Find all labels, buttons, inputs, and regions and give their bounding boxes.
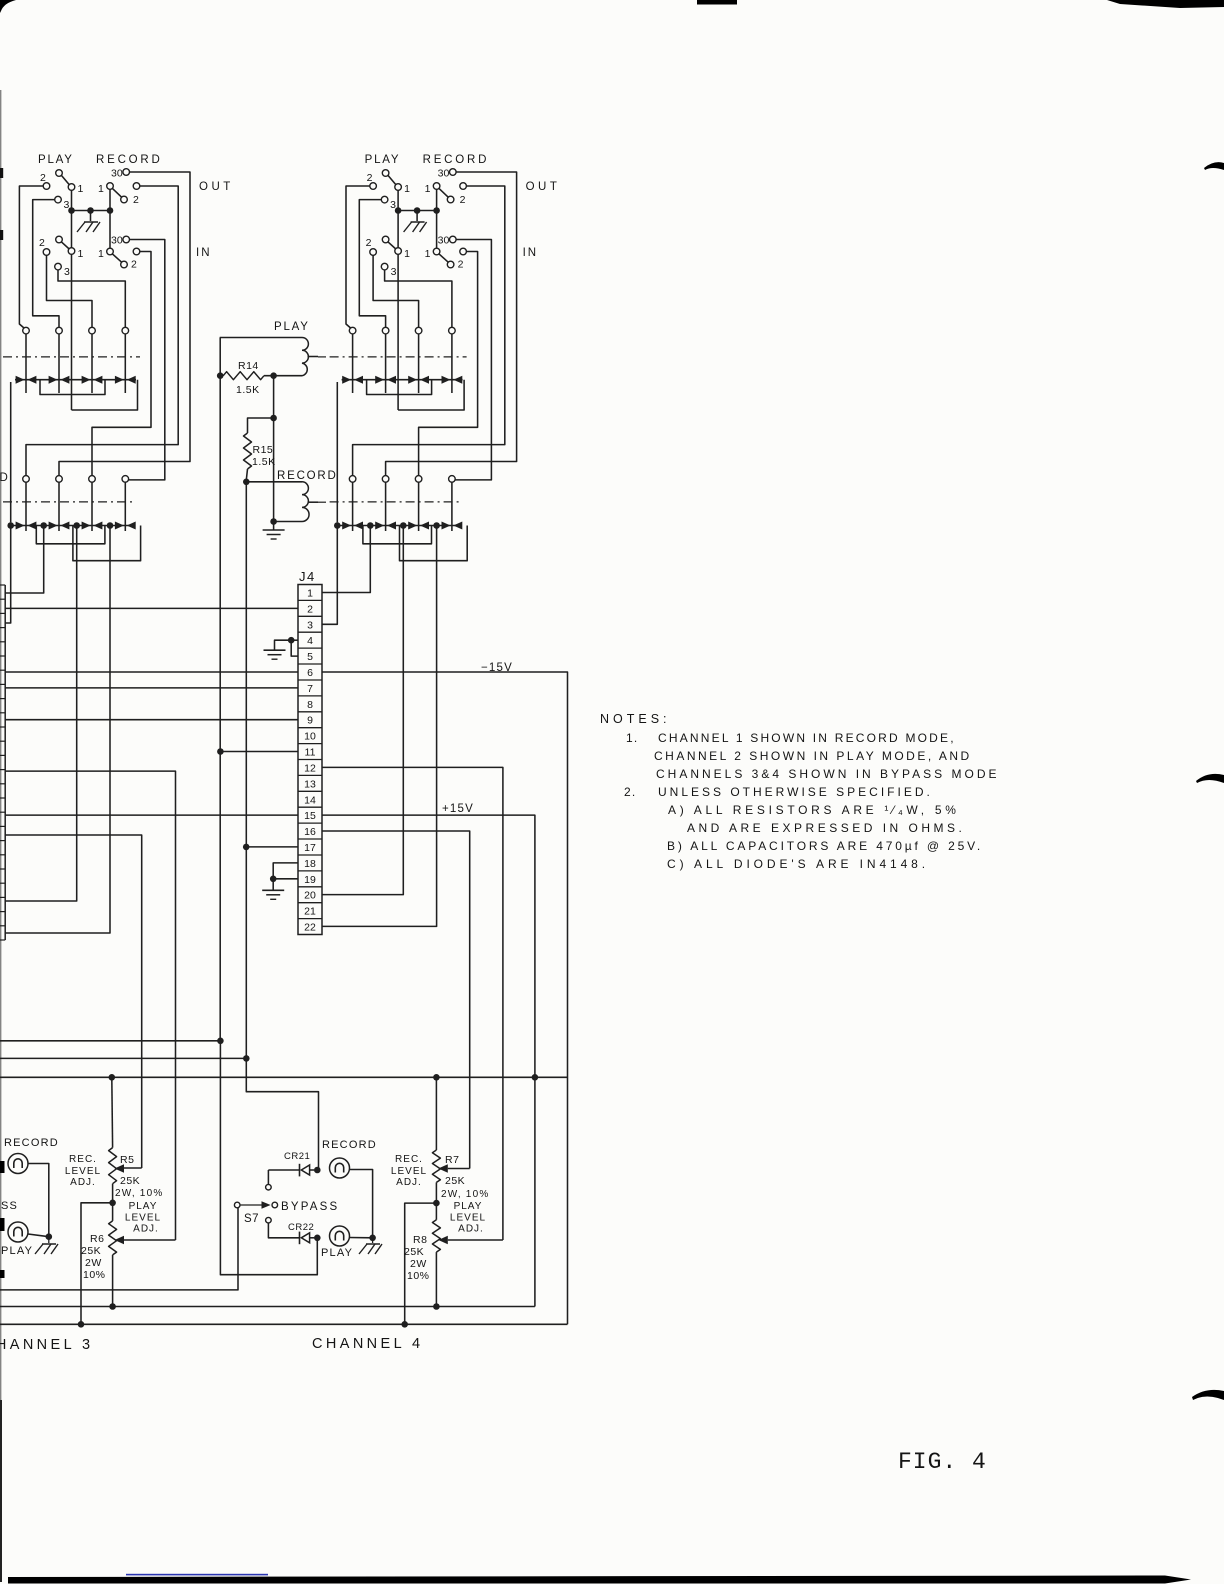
svg-text:R5: R5 — [120, 1154, 134, 1166]
svg-text:1.5K: 1.5K — [236, 384, 260, 396]
junction R14 right — [270, 372, 277, 379]
svg-text:C) ALL DIODE'S ARE IN4148.: C) ALL DIODE'S ARE IN4148. — [667, 857, 929, 871]
lamp DS-record ch3 — [8, 1154, 28, 1174]
wire R7 to R8 — [435, 1182, 437, 1219]
wire S7 to CR22 anode — [268, 1223, 299, 1238]
wire pot bottom rail — [0, 1306, 535, 1308]
wire ground stem — [273, 522, 275, 530]
scan artifact: right-edge curl 2 — [1196, 774, 1224, 783]
svg-text:10%: 10% — [83, 1269, 106, 1281]
svg-text:2W: 2W — [410, 1258, 427, 1270]
svg-text:16: 16 — [304, 826, 316, 838]
scan artifact: right-edge curl 1 — [1204, 162, 1224, 170]
svg-text:1.: 1. — [626, 731, 638, 745]
svg-text:LEVEL: LEVEL — [65, 1166, 101, 1177]
wire S7 arm — [240, 1204, 262, 1206]
svg-text:REC.: REC. — [69, 1154, 97, 1165]
svg-text:RECORD: RECORD — [322, 1139, 377, 1151]
switch bank block (channel 4) — [330, 154, 561, 561]
junction R7/R8 — [433, 1200, 440, 1207]
potentiometer R7 — [432, 1150, 440, 1182]
wire bus2 block1 to edge connector — [5, 529, 44, 594]
svg-text:A) ALL RESISTORS ARE ¹⁄₄W, 5%: A) ALL RESISTORS ARE ¹⁄₄W, 5% — [668, 803, 960, 817]
wire edge connector to J4 pin 7 — [5, 687, 298, 689]
lamp DS-record ch4 — [330, 1158, 350, 1178]
wire R5/R6 junction to bottom rail — [81, 1203, 113, 1325]
svg-text:1.5K: 1.5K — [252, 456, 276, 468]
wire play head bottom — [264, 375, 302, 377]
svg-text:3: 3 — [307, 619, 313, 631]
svg-text:CHANNEL 2 SHOWN IN PLAY MODE,: CHANNEL 2 SHOWN IN PLAY MODE, AND — [654, 749, 972, 763]
svg-text:7: 7 — [307, 683, 313, 695]
svg-text:CHANNEL 1 SHOWN IN RECORD MOD: CHANNEL 1 SHOWN IN RECORD MODE, — [658, 731, 956, 745]
wire R7 wiper out — [448, 1168, 470, 1170]
svg-text:ADJ.: ADJ. — [133, 1224, 159, 1235]
junction R14 left — [217, 372, 224, 379]
wire record head bottom — [274, 521, 302, 523]
scan artifact: top-left black corner — [0, 0, 16, 13]
svg-text:R8: R8 — [413, 1234, 427, 1246]
scan artifact: top edge dash — [697, 0, 737, 5]
svg-text:2: 2 — [307, 603, 313, 615]
wire bottom rail (-15V return) — [0, 1323, 568, 1325]
svg-text:13: 13 — [304, 778, 316, 790]
wiper arrow R6 — [115, 1236, 125, 1245]
wire to J4 pin 17 — [246, 846, 298, 848]
svg-text:CHANNEL 4: CHANNEL 4 — [312, 1336, 423, 1352]
lamp DS-play ch4 — [330, 1226, 350, 1246]
wire -15V rail — [322, 672, 568, 1324]
scan artifact: left-edge clipped component blobs — [0, 1161, 5, 1173]
wire play head top — [220, 337, 302, 339]
wire pin 19 — [273, 878, 298, 880]
inductor PLAY head winding — [302, 338, 308, 376]
potentiometer R6 — [109, 1221, 117, 1255]
svg-text:ADJ.: ADJ. — [70, 1177, 96, 1188]
centre line to switch bank 2 — [318, 501, 329, 503]
wire ground stem pins 4-5 — [275, 640, 292, 650]
ground (ch4 lamps) — [366, 1243, 380, 1245]
wire R6 bottom to rail — [112, 1255, 114, 1307]
svg-text:18: 18 — [304, 858, 316, 870]
svg-text:2W: 2W — [85, 1257, 102, 1269]
ground (record head) — [263, 529, 285, 531]
wire rail to R5 top — [111, 1077, 114, 1147]
switch bank block (channel 3, clipped at left) — [3, 154, 234, 561]
wire edge connector to R5 wiper — [5, 835, 142, 1168]
wire CR21 to S7 throw — [267, 1170, 269, 1184]
wire rail to record bus — [0, 1057, 246, 1059]
junction record bus tap — [243, 1055, 250, 1062]
wire +15V rail — [322, 815, 535, 1077]
svg-text:25K: 25K — [120, 1175, 140, 1187]
svg-text:2.: 2. — [624, 785, 636, 799]
svg-text:LEVEL: LEVEL — [391, 1166, 427, 1177]
svg-text:FIG. 4: FIG. 4 — [898, 1449, 987, 1475]
wire to CR21 anode — [268, 1169, 299, 1171]
svg-text:B) ALL CAPACITORS ARE 470µf @: B) ALL CAPACITORS ARE 470µf @ 25V. — [667, 839, 983, 853]
inductor RECORD head winding — [302, 482, 309, 522]
centre line to switch bank — [318, 356, 329, 358]
wire play lamp ch3 — [28, 1234, 49, 1237]
svg-text:21: 21 — [304, 906, 316, 918]
svg-text:PLAY: PLAY — [274, 321, 310, 333]
svg-text:CR21: CR21 — [284, 1151, 310, 1162]
wire long vertical R15 bus — [245, 482, 247, 1059]
wire bus4 block1 to edge connector — [5, 529, 110, 934]
svg-text:10: 10 — [304, 731, 316, 743]
wire long vertical play-top bus — [219, 338, 221, 1041]
svg-text:REC.: REC. — [395, 1154, 423, 1165]
wire play head centre tap — [308, 356, 319, 358]
svg-text:J4: J4 — [299, 569, 316, 584]
diode CR21 — [299, 1164, 301, 1177]
junction J4 pin4 ground tie — [288, 637, 295, 644]
svg-text:PLAY: PLAY — [1, 1245, 33, 1257]
wire R15 bottom — [246, 469, 247, 480]
junction pin 17 tap — [243, 844, 250, 851]
svg-text:15: 15 — [304, 810, 316, 822]
wire pin 18 tie — [273, 863, 298, 879]
resistor R15 — [244, 433, 252, 469]
svg-text:8: 8 — [307, 699, 313, 711]
ground (J4 pins 4-5) — [264, 649, 286, 651]
S7 throw contact (play) — [266, 1217, 272, 1223]
junction J4 pin19 ground tie — [270, 876, 277, 883]
svg-text:UNLESS OTHERWISE SPECIFIED.: UNLESS OTHERWISE SPECIFIED. — [658, 785, 933, 799]
svg-text:1: 1 — [307, 588, 313, 600]
wire bus1 block1 to edge connector — [5, 529, 11, 624]
junction R5 top tap — [109, 1074, 116, 1081]
svg-text:BYPASS: BYPASS — [281, 1201, 339, 1213]
wire bus1 block2 to J4 pin 3 — [322, 529, 337, 625]
junction bypass bus ch3 — [217, 1038, 224, 1045]
junction pin 11 tap — [217, 748, 224, 755]
svg-text:LEVEL: LEVEL — [450, 1213, 486, 1224]
svg-text:20: 20 — [304, 890, 316, 902]
svg-text:RECORD: RECORD — [4, 1137, 59, 1149]
svg-text:6: 6 — [307, 667, 313, 679]
wire record head centre tap — [308, 501, 319, 503]
scan artifact: left-edge clipped wire stubs — [0, 168, 3, 178]
potentiometer R5 — [109, 1148, 117, 1184]
svg-text:LEVEL: LEVEL — [125, 1213, 161, 1224]
svg-text:RECORD: RECORD — [277, 470, 338, 482]
wire R8 wiper out — [448, 1239, 503, 1241]
junction R5/R6 tap on -15V bottom rail — [78, 1321, 85, 1328]
svg-text:S7: S7 — [244, 1213, 259, 1225]
S7 common contact — [234, 1202, 240, 1208]
wire R14 junction down to record head — [273, 376, 275, 522]
junction R7 top tap — [433, 1074, 440, 1081]
wire R5 to R6 — [112, 1184, 114, 1221]
wire R8 bottom to rail — [435, 1252, 437, 1306]
wire R6 wiper out — [124, 1239, 176, 1241]
scan artifact: left edge line — [0, 90, 1, 1420]
wire edge connector to J4 pin 6 — [5, 671, 298, 673]
svg-text:PLAY: PLAY — [129, 1201, 158, 1212]
S7 arm arrow — [262, 1201, 271, 1209]
wire record lamp to play lamp ch3 — [28, 1164, 49, 1237]
scan artifact: bottom black bar — [8, 1576, 1191, 1584]
wire bus3 block1 to edge connector — [5, 529, 77, 902]
svg-text:PLAY: PLAY — [321, 1247, 353, 1259]
junction R5/R6 — [109, 1200, 116, 1207]
wire R15 bus down to CR21 node — [246, 1058, 318, 1170]
svg-text:22: 22 — [304, 922, 316, 934]
ground (J4 pins 18-19) — [262, 889, 284, 891]
lamp DS-play ch3 — [8, 1222, 28, 1242]
junction R15 branch — [270, 415, 277, 422]
wiper arrow R8 — [438, 1236, 448, 1245]
wire J4 pin16 to R7 wiper — [322, 831, 470, 1169]
wire lamp supply rail — [0, 1076, 568, 1078]
wiper arrow R5 — [115, 1164, 125, 1173]
wire record lamp to common ch4 — [349, 1170, 373, 1238]
wire record head top — [246, 481, 302, 483]
svg-text:SS: SS — [1, 1200, 18, 1212]
wire R7/R8 junction to bottom rail — [405, 1203, 437, 1324]
svg-text:11: 11 — [305, 747, 316, 759]
wire bus2 block2 to J4 pin 1 — [322, 529, 370, 593]
wire to R15 — [248, 418, 274, 433]
wire ground stub ch3 — [48, 1237, 50, 1243]
svg-text:ADJ.: ADJ. — [396, 1177, 422, 1188]
svg-text:NOTES:: NOTES: — [600, 712, 671, 726]
svg-text:+15V: +15V — [442, 803, 474, 815]
wire edge connector to R6 wiper — [5, 771, 175, 1240]
svg-text:19: 19 — [304, 874, 316, 886]
wire S7 common feed — [0, 1208, 238, 1290]
wire ground stub ch4 — [372, 1238, 374, 1243]
svg-text:R14: R14 — [238, 360, 259, 372]
junction play lamp / ground ch3 — [46, 1233, 53, 1240]
ground (ch3 lamps) — [42, 1243, 56, 1245]
wire bus4 block2 to J4 pin 22 — [322, 529, 437, 927]
junction lamp common / ground ch4 — [369, 1235, 376, 1242]
svg-text:RECORD: RECORD — [0, 472, 10, 484]
svg-text:10%: 10% — [407, 1270, 430, 1282]
svg-text:2W, 10%: 2W, 10% — [441, 1189, 489, 1200]
wire pin 4 — [291, 639, 298, 641]
wire ground stem pins 18-19 — [272, 879, 274, 890]
svg-text:CHANNELS 3&4 SHOWN IN BYPASS M: CHANNELS 3&4 SHOWN IN BYPASS MODE — [656, 767, 1000, 781]
wire CR21 cathode — [310, 1169, 315, 1171]
wire J4 pin12 to R8 wiper — [322, 767, 503, 1240]
svg-text:ADJ.: ADJ. — [458, 1224, 484, 1235]
wire play lamp to common ch4 — [349, 1237, 373, 1239]
wire bus3 block2 to J4 pin 20 — [322, 529, 403, 895]
wire +15V down to pot rail — [534, 1077, 536, 1306]
S7 throw contact (record) — [266, 1184, 272, 1190]
junction CR22 / play lamp — [314, 1235, 321, 1242]
svg-text:R7: R7 — [445, 1154, 459, 1166]
junction R7/R8 tap on -15V bottom rail — [401, 1321, 408, 1328]
scan artifact: top-right black bar — [1107, 0, 1224, 8]
junction +15V / lamp rail — [532, 1074, 539, 1081]
svg-text:CHANNEL 3: CHANNEL 3 — [0, 1337, 93, 1353]
svg-text:25K: 25K — [445, 1175, 465, 1187]
wire pin 5 tie — [291, 640, 298, 656]
wire CR22 cathode — [310, 1237, 315, 1239]
S7 throw contact (bypass) — [272, 1202, 278, 1208]
svg-text:5: 5 — [307, 651, 313, 663]
junction R15 / record bus — [243, 479, 250, 486]
svg-text:14: 14 — [304, 794, 316, 806]
svg-text:25K: 25K — [81, 1245, 101, 1257]
svg-text:25K: 25K — [404, 1246, 424, 1258]
wire rail to R7 top — [435, 1077, 437, 1150]
svg-text:2W, 10%: 2W, 10% — [115, 1188, 163, 1199]
wiper arrow R7 — [438, 1164, 448, 1173]
svg-text:R6: R6 — [90, 1233, 104, 1245]
svg-text:9: 9 — [307, 715, 313, 727]
svg-text:17: 17 — [304, 842, 316, 854]
svg-text:CR22: CR22 — [288, 1222, 314, 1233]
edge connector (clipped at page edge) — [4, 585, 6, 940]
wire bypass bus down to CR22 node — [220, 1041, 317, 1275]
wire to J4 pin 11 — [220, 751, 298, 753]
svg-text:R15: R15 — [253, 444, 274, 456]
svg-text:12: 12 — [304, 763, 316, 775]
svg-text:4: 4 — [307, 635, 313, 647]
wire edge connector to J4 pin 9 — [5, 719, 298, 721]
junction R8 bottom on pot rail — [433, 1303, 440, 1310]
scan artifact: blue pen line — [126, 1574, 268, 1576]
resistor R14 — [223, 372, 264, 380]
diode CR22 — [299, 1232, 301, 1245]
junction CR21 / record lamp — [314, 1167, 321, 1174]
wire edge connector to J4 pin 2 — [5, 607, 298, 609]
svg-text:PLAY: PLAY — [454, 1201, 483, 1212]
junction R6 bottom on pot rail — [109, 1303, 116, 1310]
potentiometer R8 — [432, 1220, 440, 1252]
svg-text:AND ARE EXPRESSED IN OHMS.: AND ARE EXPRESSED IN OHMS. — [687, 821, 965, 835]
wire rail to bypass bus ch3 — [0, 1040, 220, 1042]
wire R5 wiper out — [124, 1167, 142, 1169]
scan artifact: right-edge curl 3 — [1192, 1390, 1224, 1400]
junction record head ground — [270, 518, 277, 525]
wire edge connector to J4 pin 15 — [5, 814, 298, 816]
